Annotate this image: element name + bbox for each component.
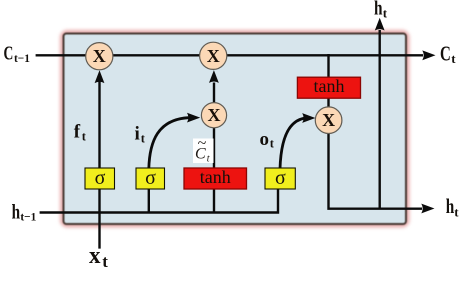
svg-text:t−1: t−1	[14, 51, 30, 65]
svg-text:h: h	[12, 199, 21, 223]
svg-text:C: C	[440, 42, 451, 66]
svg-text:f: f	[74, 122, 81, 143]
svg-text:X: X	[322, 110, 335, 130]
svg-text:~: ~	[198, 135, 207, 152]
svg-text:o: o	[260, 129, 270, 150]
svg-text:h: h	[374, 0, 383, 20]
svg-text:t−1: t−1	[20, 210, 36, 224]
svg-text:σ: σ	[95, 167, 106, 189]
svg-text:X: X	[207, 46, 220, 66]
svg-text:C: C	[4, 43, 14, 65]
svg-text:h: h	[446, 194, 455, 218]
svg-text:X: X	[93, 46, 106, 66]
svg-text:t: t	[383, 6, 388, 21]
svg-text:t: t	[207, 154, 210, 165]
svg-text:σ: σ	[275, 167, 286, 189]
svg-text:x: x	[89, 243, 101, 269]
svg-text:X: X	[208, 105, 221, 125]
svg-text:t: t	[451, 51, 456, 66]
svg-text:σ: σ	[145, 167, 156, 189]
svg-text:tanh: tanh	[200, 167, 231, 187]
svg-text:tanh: tanh	[314, 76, 345, 96]
svg-text:t: t	[102, 252, 108, 271]
svg-text:t: t	[454, 205, 459, 220]
svg-text:i: i	[135, 124, 140, 145]
